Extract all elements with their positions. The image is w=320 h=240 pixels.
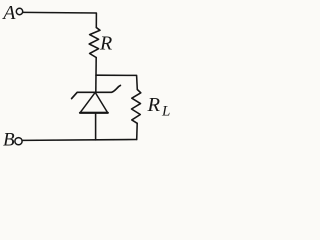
svg-text:L: L	[161, 104, 170, 120]
svg-text:B: B	[3, 130, 15, 151]
svg-text:A: A	[1, 2, 16, 24]
svg-text:R: R	[147, 94, 161, 116]
svg-text:R: R	[99, 32, 112, 54]
